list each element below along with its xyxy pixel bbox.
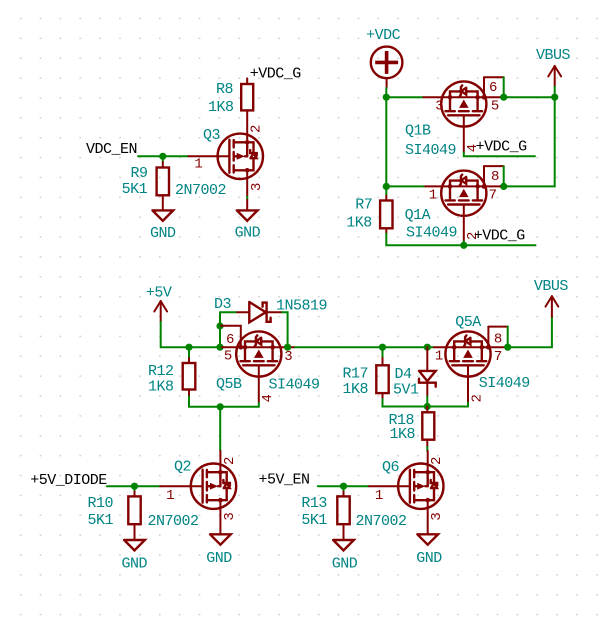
diode D4 zener 5V1 — [419, 347, 436, 396]
label +VDC — [366, 27, 401, 44]
value 1K8 (R7) — [346, 215, 372, 232]
svg-text:SI4049: SI4049 — [479, 375, 530, 392]
svg-text:5: 5 — [491, 98, 499, 114]
wire gate net Q5A — [427, 406, 468, 408]
svg-text:Q5A: Q5A — [455, 314, 481, 331]
pin 5 of Q5B — [222, 347, 236, 364]
value 2N7002 (Q6) — [356, 513, 407, 530]
wire R12 bottom to gate net — [189, 396, 259, 406]
transistor Q2 — [191, 464, 236, 509]
junction Q1A source node — [500, 183, 507, 190]
pin 3 of Q1B — [424, 97, 444, 114]
transistor Q5B — [236, 331, 281, 376]
net label +5V_DIODE — [30, 472, 107, 489]
wire R12 top — [188, 347, 190, 358]
ground below R10 — [121, 540, 147, 572]
wire R17 top — [382, 347, 384, 358]
pin 4 of Q5B (gate) — [259, 377, 276, 403]
svg-text:GND: GND — [121, 555, 147, 572]
svg-text:R7: R7 — [355, 197, 372, 214]
wire +5V down and right — [161, 322, 222, 348]
label R8 — [216, 81, 234, 98]
wire R7 to +VDC_G net — [386, 234, 464, 246]
wire VBUS down to Q1A — [504, 97, 555, 186]
wire Q1B gate to net — [464, 153, 535, 157]
label R12 — [148, 363, 174, 380]
junction D3 cathode node — [284, 344, 291, 351]
label Q2 — [174, 459, 191, 476]
svg-text:3: 3 — [429, 513, 445, 521]
junction +5V_EN/R13 — [340, 483, 347, 490]
pin 8 of Q5A (stacked) — [486, 327, 508, 350]
value 5K1 (R10) — [88, 512, 114, 529]
pin 2 of Q1A (gate) — [464, 216, 481, 242]
svg-text:5K1: 5K1 — [301, 512, 327, 529]
transistor Q3 — [218, 134, 263, 179]
ground below R9 — [150, 210, 176, 242]
value 1K8 (R12) — [148, 379, 174, 396]
pin 2 of Q3 (drain) — [247, 110, 265, 142]
net label +VDC_G (top) — [250, 66, 302, 83]
svg-text:Q3: Q3 — [203, 127, 221, 144]
resistor R10 — [128, 492, 140, 541]
value 5K1 (R13) — [301, 512, 327, 529]
value 5K1 (R9) — [122, 181, 148, 198]
transistor Q6 — [398, 464, 443, 509]
svg-text:Q1B: Q1B — [405, 123, 431, 140]
pin 3 of Q3 (source) — [247, 170, 265, 197]
wire Q5B to Q5A — [295, 346, 434, 348]
svg-text:1K8: 1K8 — [346, 215, 372, 232]
wire pin6 box to node — [503, 77, 505, 97]
svg-text:+VDC_G: +VDC_G — [250, 66, 302, 83]
svg-text:SI4049: SI4049 — [406, 224, 457, 241]
diode D3 1N5819 — [237, 302, 282, 322]
svg-text:1K8: 1K8 — [390, 426, 416, 443]
label Q1B — [405, 123, 431, 140]
wire VDC_EN to Q3 gate — [138, 155, 188, 157]
junction R17 node — [379, 344, 386, 351]
label +5V — [146, 284, 172, 301]
net label +VDC_G (Q1B gate) — [476, 139, 528, 156]
resistor R17 — [376, 358, 388, 399]
pin 1 of Q3 — [188, 156, 217, 172]
svg-text:VDC_EN: VDC_EN — [86, 141, 137, 158]
svg-text:3: 3 — [222, 513, 238, 521]
power symbol +VDC — [371, 47, 403, 88]
value 5V1 (D4) — [393, 382, 419, 399]
svg-text:2: 2 — [249, 125, 265, 133]
svg-text:2N7002: 2N7002 — [356, 513, 407, 530]
label VBUS (top) — [536, 47, 571, 64]
junction VBUS node — [551, 94, 558, 101]
label R18 — [389, 412, 415, 429]
resistor R7 — [380, 196, 392, 234]
wire +VDC to Q1B drain — [386, 96, 423, 98]
label R17 — [343, 365, 369, 382]
value SI4049 (Q1B) — [405, 142, 456, 159]
pin 7 of Q5A — [491, 347, 504, 365]
wire R10 top — [134, 486, 136, 491]
svg-text:7: 7 — [489, 188, 497, 204]
pin 1 of Q2 — [160, 486, 191, 504]
wire Q5A gate down — [467, 403, 469, 407]
resistor R8 — [241, 78, 253, 110]
ground below R13 — [332, 540, 358, 572]
svg-text:1: 1 — [429, 188, 437, 204]
wire R13 top — [343, 486, 345, 491]
svg-text:6: 6 — [489, 80, 497, 96]
wire +5V_DIODE to Q2 gate — [107, 485, 160, 487]
transistor Q1A — [441, 171, 486, 216]
wire Q1B source to VBUS — [504, 96, 555, 98]
svg-text:3: 3 — [249, 183, 265, 191]
junction D3/Q5B pin5 — [216, 344, 223, 351]
svg-text:R12: R12 — [148, 363, 174, 380]
wire Q5A to VBUS — [508, 316, 552, 347]
svg-text:7: 7 — [494, 349, 502, 365]
svg-text:2N7002: 2N7002 — [175, 182, 226, 199]
svg-text:5V1: 5V1 — [393, 382, 419, 399]
label R7 — [355, 197, 372, 214]
junction +VDC node — [383, 94, 390, 101]
wire D3 branch up — [219, 312, 221, 347]
svg-text:+VDC_G: +VDC_G — [476, 139, 528, 156]
value SI4049 (Q1A) — [406, 224, 457, 241]
value 2N7002 (Q2) — [148, 513, 199, 530]
svg-text:Q2: Q2 — [174, 459, 191, 476]
transistor Q5A — [445, 331, 490, 376]
svg-text:R13: R13 — [301, 495, 327, 512]
svg-text:R9: R9 — [131, 165, 148, 182]
value SI4049 (Q5B) — [269, 377, 320, 394]
pin 1 of Q1A — [424, 186, 442, 203]
label Q6 — [382, 459, 400, 476]
ground below Q2 — [206, 534, 232, 567]
resistor R9 — [157, 162, 169, 210]
pin 6 of Q1B (stacked) — [482, 77, 504, 99]
svg-text:2: 2 — [429, 457, 445, 465]
svg-text:GND: GND — [235, 225, 261, 242]
label Q5B — [216, 376, 242, 393]
wire pin8 box to node (Q5A) — [507, 327, 509, 348]
pin 8 of Q1A (stacked) — [482, 166, 504, 189]
label VBUS (right) — [534, 278, 569, 295]
pin 3 of Q2 (source) — [220, 500, 238, 534]
junction +VDC/R7 node — [383, 183, 390, 190]
junction gate net / Q2 drain — [217, 403, 224, 410]
svg-text:SI4049: SI4049 — [269, 377, 320, 394]
svg-text:1: 1 — [166, 488, 174, 504]
junction +VDC_G (Q1A gate) — [460, 242, 467, 249]
svg-text:1: 1 — [375, 488, 383, 504]
wire +VDC down to Q1A/R7 — [385, 97, 387, 186]
svg-text:R10: R10 — [88, 495, 114, 512]
junction +5V_DIODE/R10 — [131, 483, 138, 490]
svg-text:1: 1 — [194, 156, 202, 172]
value 1K8 (R17) — [343, 381, 369, 398]
svg-text:Q1A: Q1A — [405, 207, 431, 224]
svg-text:1K8: 1K8 — [343, 381, 369, 398]
svg-text:Q5B: Q5B — [216, 376, 242, 393]
svg-text:VBUS: VBUS — [534, 278, 569, 295]
label Q1A — [405, 207, 431, 224]
value SI4049 (Q5A) — [479, 375, 530, 392]
junction Q5A source node — [504, 344, 511, 351]
label Q5A — [455, 314, 481, 331]
svg-text:R8: R8 — [216, 81, 234, 98]
svg-text:3: 3 — [284, 349, 292, 365]
label D3 — [214, 296, 232, 313]
svg-text:8: 8 — [491, 169, 499, 185]
junction R18 node — [424, 403, 431, 410]
resistor R13 — [337, 492, 349, 541]
svg-text:8: 8 — [494, 332, 502, 348]
svg-text:1K8: 1K8 — [208, 99, 234, 116]
pin 2 of Q2 (drain) — [220, 451, 238, 472]
pin 5 of Q1B — [486, 97, 500, 114]
svg-text:6: 6 — [226, 332, 234, 348]
net label +5V_EN — [259, 472, 310, 489]
resistor R12 — [183, 358, 196, 396]
pin 4 of Q1B (gate) — [464, 127, 481, 153]
power symbol VBUS (right) — [546, 296, 559, 317]
pin 2 of Q6 (drain) — [428, 451, 446, 472]
svg-text:GND: GND — [332, 555, 358, 572]
junction +5V/R12 — [185, 344, 192, 351]
power symbol +5V — [154, 301, 167, 322]
svg-text:Q6: Q6 — [382, 459, 400, 476]
net label VDC_EN — [86, 141, 137, 158]
svg-text:+5V_DIODE: +5V_DIODE — [30, 472, 107, 489]
svg-text:5: 5 — [224, 349, 232, 365]
svg-text:D3: D3 — [214, 296, 232, 313]
junction Q1B source node — [500, 94, 507, 101]
wire R18 to Q6 drain — [426, 440, 428, 451]
ground below Q3 — [235, 200, 261, 242]
svg-text:D4: D4 — [395, 366, 413, 383]
pin 7 of Q1A — [486, 186, 500, 203]
svg-text:2: 2 — [222, 457, 238, 465]
junction D4 node — [424, 344, 431, 351]
pin 1 of Q5A — [434, 347, 446, 364]
label R10 — [88, 495, 114, 512]
wire D4 bottom — [426, 397, 428, 407]
wire junction to R9 — [162, 156, 164, 162]
wire D3 anode — [220, 311, 237, 313]
label Q3 — [203, 127, 221, 144]
svg-text:1K8: 1K8 — [148, 379, 174, 396]
svg-text:GND: GND — [206, 550, 232, 567]
value 1N5819 (D3) — [276, 298, 327, 315]
wire to R7 — [385, 186, 387, 195]
ground below Q6 — [416, 534, 442, 567]
wire Q1A gate to net — [463, 241, 465, 245]
svg-text:2: 2 — [469, 395, 485, 403]
svg-text:VBUS: VBUS — [536, 47, 571, 64]
junction D3/pin6 — [216, 322, 223, 329]
wire +5V_EN to Q6 gate — [318, 485, 369, 487]
wire junction to Q1A pin1 — [386, 185, 423, 187]
label R9 — [131, 165, 148, 182]
resistor R18 — [422, 407, 434, 440]
svg-text:+5V_EN: +5V_EN — [259, 472, 310, 489]
svg-text:2N7002: 2N7002 — [148, 513, 199, 530]
wire Q5B gate down — [258, 403, 260, 407]
power symbol VBUS (top) — [548, 66, 561, 87]
svg-text:GND: GND — [150, 225, 176, 242]
svg-text:+5V: +5V — [146, 284, 172, 301]
transistor Q1B — [441, 81, 486, 126]
wire down to Q2 drain — [219, 407, 221, 451]
svg-text:5K1: 5K1 — [122, 181, 148, 198]
pin 6 of Q5B (stacked) — [221, 326, 243, 350]
wire VBUS stem — [554, 87, 556, 98]
wire +VDC down — [385, 88, 387, 97]
junction node VDC_EN/R9 — [159, 153, 166, 160]
value 2N7002 (Q3) — [175, 182, 226, 199]
value 1K8 (R18) — [390, 426, 416, 443]
net label +VDC_G (Q1A gate) — [474, 227, 526, 244]
pin 3 of Q5B — [281, 347, 295, 365]
svg-text:+VDC_G: +VDC_G — [474, 227, 526, 244]
wire pin8 box to node — [503, 166, 505, 186]
label D4 — [395, 366, 413, 383]
svg-text:5K1: 5K1 — [88, 512, 114, 529]
pin 1 of Q6 — [369, 486, 398, 504]
wire Q3 source to GND — [246, 197, 248, 200]
pin 3 of Q6 (source) — [428, 500, 446, 534]
svg-text:GND: GND — [416, 550, 442, 567]
pin 2 of Q5A (gate) — [468, 377, 485, 403]
svg-text:1: 1 — [435, 349, 443, 365]
svg-text:4: 4 — [260, 395, 276, 403]
svg-text:+VDC: +VDC — [366, 27, 401, 44]
label R13 — [301, 495, 327, 512]
wire D3 cathode down — [282, 312, 288, 347]
wire R17 bottom — [383, 399, 428, 407]
wire +VDC_G label (Q1A) — [464, 244, 536, 246]
svg-text:SI4049: SI4049 — [405, 142, 456, 159]
value 1K8 (R8) — [208, 99, 234, 116]
